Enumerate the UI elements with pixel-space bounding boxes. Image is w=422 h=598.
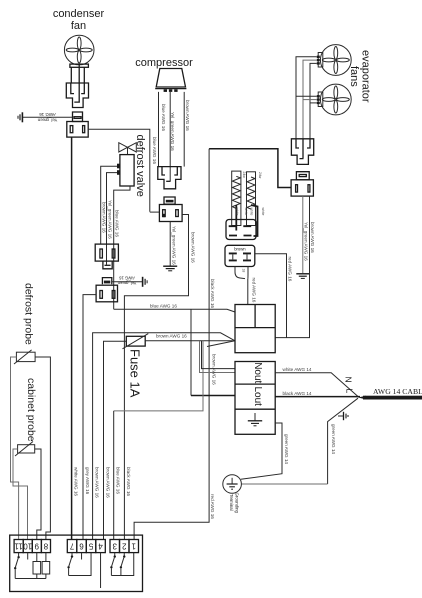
wire fuse left to terminal 4	[104, 341, 127, 539]
svg-text:Grounding: Grounding	[235, 493, 240, 514]
svg-text:Yel_green: Yel_green	[37, 118, 57, 123]
wire grey from B down to crossbar	[114, 341, 203, 411]
svg-text:AWG 14 CABLE: AWG 14 CABLE	[373, 387, 422, 396]
svg-text:white AWG 14: white AWG 14	[283, 367, 312, 372]
wire thick into Lout	[191, 395, 235, 397]
svg-text:condenser: condenser	[53, 8, 105, 20]
wire yel_green ground lead condenser fan	[22, 116, 72, 118]
svg-text:white AWG 16: white AWG 16	[73, 467, 78, 496]
wire compressor female left lead	[150, 211, 160, 213]
compressor M2 body	[155, 69, 186, 92]
wire green AWG 14 from output box ground	[241, 423, 282, 479]
svg-text:blue AWG 16: blue AWG 16	[152, 137, 157, 164]
wire yel_green compressor ground lead	[169, 222, 171, 267]
stub under terminal 6	[81, 553, 83, 560]
connector X3b evaporator female	[291, 172, 313, 196]
wire grey to grounding terminal	[241, 483, 327, 485]
svg-text:18: 18	[242, 269, 246, 273]
terminal block 11 10 9 8	[14, 540, 51, 553]
wire brown terminal5 riser with bend to B	[93, 333, 235, 540]
svg-text:24w: 24w	[258, 172, 262, 179]
wire fuse right to control box B	[145, 340, 235, 342]
svg-text:10: 10	[23, 541, 32, 550]
wire black AWG 14 Lout to cable	[275, 396, 360, 398]
evaporator fan M3 motor circle	[320, 45, 351, 76]
svg-text:1: 1	[131, 541, 136, 550]
evaporator fans label	[348, 50, 372, 103]
svg-text:3: 3	[112, 541, 117, 550]
svg-text:brown AWG 16: brown AWG 16	[102, 202, 107, 233]
wire brown evaporator to control box	[275, 196, 309, 338]
svg-text:7: 7	[69, 541, 74, 550]
svg-text:4: 4	[98, 541, 103, 550]
svg-text:AWG 16: AWG 16	[118, 275, 134, 280]
condenser fan M1 motor circle	[64, 35, 94, 65]
wire bus down to terminal 1 run	[134, 149, 209, 540]
svg-text:brown AWG 16: brown AWG 16	[94, 467, 99, 498]
svg-text:Fuse 1A: Fuse 1A	[128, 349, 143, 398]
svg-text:white: white	[261, 208, 265, 216]
wire diagonal into B from below	[207, 341, 235, 347]
grounding terminal GT1	[223, 475, 242, 494]
svg-text:brown AWG 16: brown AWG 16	[190, 232, 195, 263]
label Yel_green AWG 16 (upside down)	[117, 275, 136, 285]
wire white AWG 14 Nout to cable	[275, 373, 358, 397]
svg-text:N: N	[344, 377, 354, 383]
ground G1	[18, 112, 22, 122]
wire brown compressor female to bus	[124, 215, 188, 540]
svg-text:green AWG 14: green AWG 14	[331, 424, 336, 454]
rail under left group	[15, 578, 46, 580]
fuse F1 1A	[123, 334, 149, 349]
terminal block 3 2 1	[110, 540, 139, 553]
svg-text:black AWG 14: black AWG 14	[283, 391, 312, 396]
wire defrost probe right to terminal 8	[35, 357, 50, 540]
wire yel_green evaporator to ground	[302, 196, 304, 273]
svg-text:Yel_green AWG 16: Yel_green AWG 16	[303, 222, 308, 261]
svg-text:fans: fans	[348, 66, 360, 87]
heater R2 defrost heater tube	[247, 172, 258, 236]
wire green AWG 14 from cable to grounding terminal	[328, 398, 358, 484]
svg-text:Nout: Nout	[252, 362, 263, 383]
svg-text:red AWG 16: red AWG 16	[252, 278, 257, 303]
svg-text:Lout: Lout	[252, 387, 263, 407]
svg-text:black AWG 16: black AWG 16	[126, 467, 131, 496]
svg-text:AWG 16: AWG 16	[39, 112, 56, 117]
wire cabinet probe right to terminal 9	[35, 449, 41, 540]
svg-text:11: 11	[14, 541, 23, 550]
svg-text:black AWG 16: black AWG 16	[210, 279, 215, 308]
wire defrost probe left to terminal 11	[11, 357, 19, 540]
wire yel_green to ground G4	[112, 281, 143, 283]
wire fan M3 leads to vertical bundle	[296, 57, 317, 140]
relay contact under terminal 9	[33, 553, 41, 579]
defrost valve coil box	[117, 155, 134, 186]
svg-text:red AWG 16: red AWG 16	[288, 257, 293, 282]
wire fan M4 leads join bundle	[296, 96, 317, 103]
wire cabinet probe left to terminal 10	[13, 449, 28, 540]
svg-text:2: 2	[121, 541, 126, 550]
svg-text:green AWG 14: green AWG 14	[284, 434, 289, 464]
connector tabs fan M3	[317, 53, 323, 68]
wire supply bus from corner to evaporator connector	[209, 149, 291, 188]
svg-text:6: 6	[79, 541, 84, 550]
svg-text:blue AWG 16: blue AWG 16	[115, 210, 120, 237]
wire compressor leads	[159, 92, 185, 181]
switch S3 under terminal 3	[110, 553, 116, 576]
wire under terminal 4	[100, 553, 102, 588]
svg-text:brown AWG 16: brown AWG 16	[105, 467, 110, 498]
connector X2b compressor female	[159, 197, 182, 222]
wire blue branch to control box entry A	[114, 309, 235, 312]
svg-text:white: white	[250, 208, 254, 216]
rail under terminals 7-5	[69, 553, 91, 576]
connector X1b condenser fan female	[67, 112, 88, 137]
svg-text:L: L	[345, 389, 355, 394]
defrost probe RT1	[14, 350, 35, 364]
wire heater leads merge	[235, 267, 248, 305]
wire blue condenser fan to compressor connector	[88, 129, 150, 212]
terminal block 7 6 5 4	[67, 540, 105, 553]
connector X4a defrost valve upper	[95, 244, 118, 269]
wire dark Nout entry	[202, 341, 236, 369]
svg-text:brown AWG 16: brown AWG 16	[185, 100, 190, 131]
connector tabs fan M4	[317, 92, 323, 107]
svg-text:evaporator: evaporator	[360, 50, 372, 103]
controller box outline	[10, 535, 143, 591]
rail under terminals 3-1	[111, 553, 133, 576]
ground symbol in output box	[248, 413, 262, 426]
control box U1 upper section	[235, 305, 275, 353]
wire heater plug to control box right entry	[255, 254, 287, 338]
condenser fan base bar	[70, 64, 89, 67]
evaporator fan M4 motor circle	[320, 84, 351, 115]
switch S11 under terminal 11	[14, 553, 20, 579]
switch S7 under terminal 7	[67, 553, 73, 576]
earth mark at cable	[338, 412, 348, 420]
wire blue riser to terminal 3	[113, 411, 115, 540]
condenser fan label	[53, 8, 105, 32]
wire white condenser fan to terminal 7	[71, 137, 73, 539]
wire brown defrost valve lead	[101, 166, 117, 244]
svg-text:blue AWG 16: blue AWG 16	[161, 104, 166, 131]
svg-text:white: white	[235, 208, 239, 216]
svg-text:Yel_green AWG 16: Yel_green AWG 16	[170, 112, 175, 151]
svg-text:defrost probe: defrost probe	[23, 283, 35, 345]
svg-text:red AWG 16: red AWG 16	[210, 494, 215, 519]
svg-text:brown AWG 16: brown AWG 16	[310, 222, 315, 253]
switch S2 under terminal 2	[120, 553, 126, 576]
svg-text:Yel_green AWG 16: Yel_green AWG 16	[107, 200, 112, 239]
stub under terminal 10	[27, 553, 29, 560]
relay contact under terminal 8	[42, 553, 50, 579]
svg-text:brown AWG 16: brown AWG 16	[212, 354, 217, 385]
cabinet probe RT2	[15, 442, 35, 457]
svg-text:cabinet probe: cabinet probe	[25, 378, 37, 442]
ground G3 evaporator	[296, 274, 309, 279]
svg-text:Terminal: Terminal	[229, 494, 234, 511]
connector X5b heater plug lower	[225, 245, 255, 266]
ground G4	[143, 277, 148, 287]
control box U1 output section Nout Lout ground	[235, 362, 275, 435]
svg-text:grey AWG 16: grey AWG 16	[85, 467, 90, 495]
wire from B to Nout entry	[200, 341, 236, 373]
svg-text:fan: fan	[71, 20, 86, 32]
svg-text:Yel_green AWG 16: Yel_green AWG 16	[171, 226, 176, 265]
cable AWG 14 thick	[358, 396, 422, 400]
heater R1 defrost heater tube	[232, 171, 241, 230]
label tiny white leads	[235, 208, 265, 216]
svg-text:white: white	[244, 208, 248, 216]
connector X3a evaporator male	[291, 139, 313, 165]
svg-text:5: 5	[88, 541, 93, 550]
defrost valve Y1 symbol	[119, 143, 137, 155]
connector X4b defrost valve lower	[96, 278, 117, 302]
wire fan leads	[71, 64, 84, 102]
wire blue down-branch to Lout	[190, 309, 192, 395]
svg-text:compressor: compressor	[135, 57, 193, 69]
label Yel_green AWG 16 (upside down) at G1	[37, 112, 57, 123]
svg-text:blue AWG 16: blue AWG 16	[116, 467, 121, 494]
svg-text:brown: brown	[234, 247, 246, 252]
label Grounding Terminal	[229, 493, 240, 514]
wire yel_green defrost valve lead	[107, 173, 118, 265]
svg-text:brown AWG 16: brown AWG 16	[156, 334, 187, 339]
svg-text:9: 9	[34, 541, 39, 550]
connector X5a heater plug upper	[226, 220, 256, 240]
connector X1a condenser fan male	[66, 83, 88, 108]
wire grey valve connector to terminal 6	[83, 295, 96, 540]
connector X2a compressor male	[158, 167, 181, 189]
svg-text:24w: 24w	[242, 172, 246, 179]
svg-text:8: 8	[43, 541, 48, 550]
ground G2 compressor	[163, 266, 177, 271]
wire blue defrost valve lead	[114, 186, 130, 309]
svg-text:blue AWG 16: blue AWG 16	[150, 304, 177, 309]
